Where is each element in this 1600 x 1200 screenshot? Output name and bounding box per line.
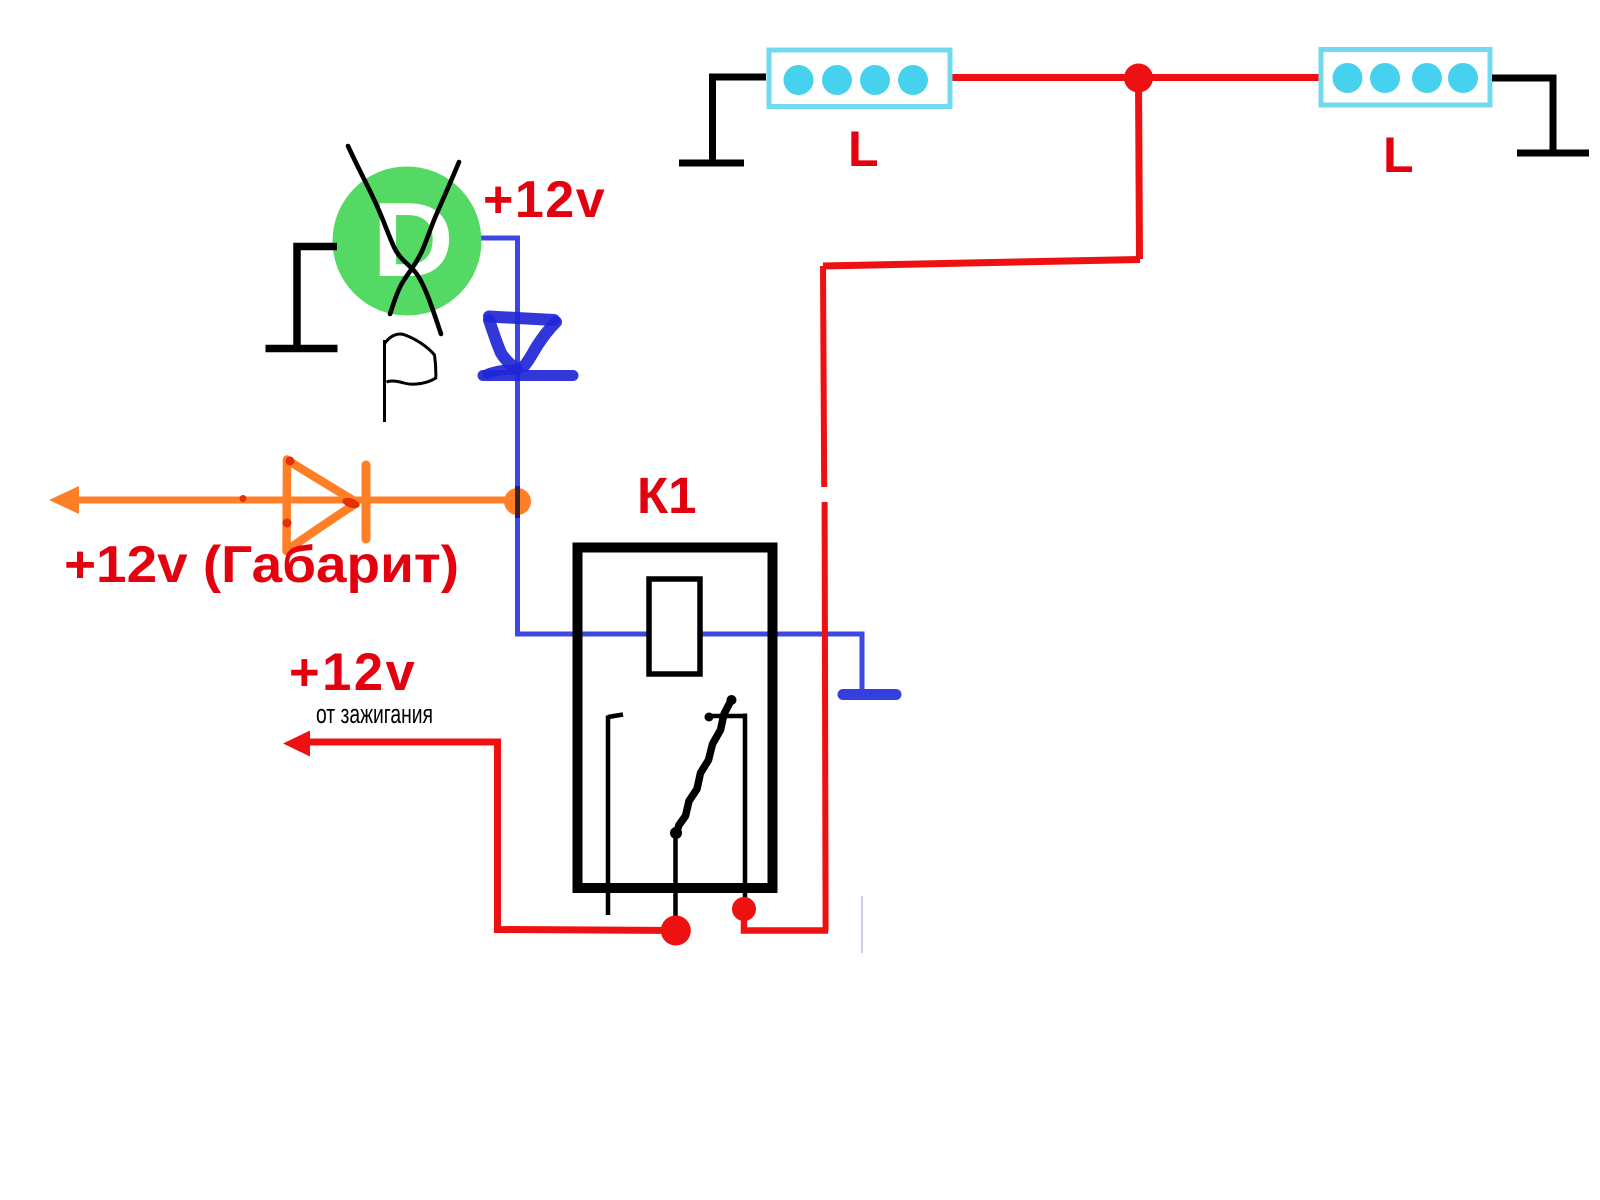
svg-text:+12v: +12v [483,171,606,229]
svg-text:L: L [848,121,879,177]
svg-text:от зажигания: от зажигания [316,699,433,729]
svg-text:+12v (Габарит): +12v (Габарит) [64,536,459,594]
svg-text:L: L [1383,127,1414,183]
svg-text:К1: К1 [637,467,697,524]
svg-text:+12v: +12v [289,643,417,702]
